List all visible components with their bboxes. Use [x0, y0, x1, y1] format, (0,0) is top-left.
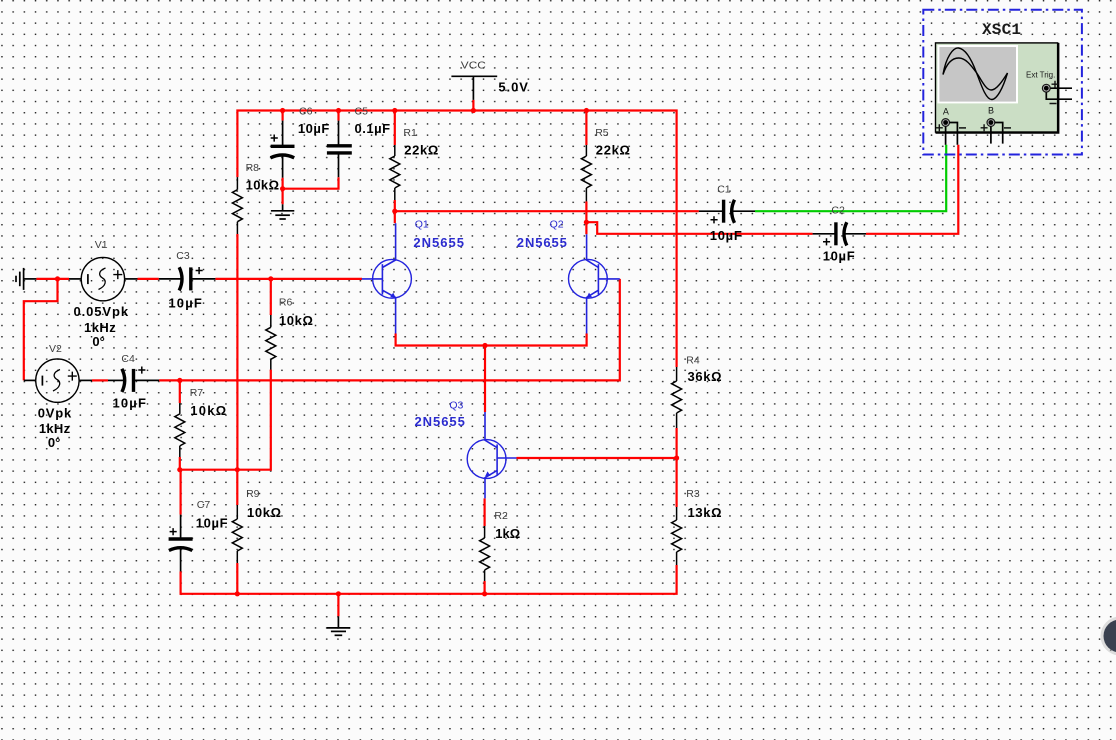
svg-text:1kHz: 1kHz	[39, 421, 71, 436]
wire R7 top	[179, 380, 181, 403]
svg-text:V2: V2	[49, 343, 62, 355]
node R1 / C1 junction	[392, 209, 397, 214]
svg-text:XSC1: XSC1	[982, 21, 1021, 39]
wire C2 to scope A minus	[866, 145, 958, 234]
svg-text:10µF: 10µF	[710, 228, 742, 243]
capacitor C1	[699, 183, 755, 243]
wire R9 top lead	[236, 470, 238, 505]
wire R2 bottom	[484, 581, 486, 594]
wire R9 bottom lead	[236, 563, 238, 594]
svg-text:36kΩ: 36kΩ	[688, 369, 722, 384]
wire R1 top lead	[394, 111, 396, 146]
svg-text:R5: R5	[595, 127, 609, 139]
resistor R9	[232, 488, 281, 563]
svg-text:10µF: 10µF	[298, 121, 329, 136]
wire ground to V1	[36, 278, 69, 280]
svg-text:VCC: VCC	[461, 60, 486, 72]
transistor Q3	[415, 399, 517, 498]
resistor R5	[581, 127, 629, 201]
wire bottom rail with end columns	[181, 565, 677, 594]
resistor R6	[266, 296, 313, 369]
svg-text:22kΩ: 22kΩ	[596, 143, 630, 158]
svg-text:Q3: Q3	[449, 399, 463, 411]
floating button bottom right	[1101, 617, 1116, 656]
node rail VCC junction	[471, 108, 476, 113]
wire C7 top	[180, 470, 182, 515]
ground bottom	[327, 616, 351, 635]
node C4 output / R7 top junction	[177, 378, 182, 383]
svg-text:R8: R8	[246, 162, 260, 174]
ground left (rotated)	[16, 268, 36, 290]
node C3 output / R6 top junction	[268, 276, 273, 281]
svg-text:R1: R1	[403, 127, 417, 139]
svg-text:22kΩ: 22kΩ	[404, 143, 438, 158]
node rail C6 junction	[280, 108, 285, 113]
node R8 / R9 junction	[235, 467, 240, 472]
svg-text:10kΩ: 10kΩ	[247, 505, 281, 520]
svg-text:C3: C3	[176, 250, 190, 262]
resistor R1	[390, 127, 439, 200]
wire C6 top lead	[282, 111, 284, 121]
ground under C6	[271, 204, 294, 219]
wire V1 to C3	[138, 278, 159, 280]
svg-text:R9: R9	[246, 488, 260, 500]
svg-text:0.05Vpk: 0.05Vpk	[74, 304, 129, 319]
wire VCC lead	[472, 100, 474, 111]
wire R8 bottom long vertical	[236, 234, 238, 470]
svg-text:C5: C5	[355, 105, 369, 117]
capacitor C7	[169, 499, 228, 571]
svg-text:0.1µF: 0.1µF	[355, 121, 391, 136]
svg-text:R6: R6	[279, 296, 293, 308]
node ground rail junction	[336, 591, 341, 596]
svg-text:C6: C6	[299, 105, 313, 117]
svg-text:R3: R3	[686, 488, 700, 500]
node R4 / R3 / Q3 base junction	[674, 455, 679, 460]
svg-text:R7: R7	[190, 387, 204, 399]
node R7 bottom / C7 junction	[177, 467, 182, 472]
wire R6 top lead	[270, 279, 272, 315]
wire top VCC rail with end columns	[237, 111, 676, 368]
capacitor C4	[108, 353, 159, 411]
svg-text:2N5655: 2N5655	[415, 414, 465, 429]
svg-text:R2: R2	[494, 510, 508, 522]
capacitor C3	[159, 250, 216, 310]
svg-text:5.0V: 5.0V	[498, 79, 528, 94]
resistor R2	[480, 510, 521, 581]
svg-text:C7: C7	[197, 499, 211, 511]
wire C3 to Q1 base	[215, 278, 362, 280]
node rail R1 junction	[392, 108, 397, 113]
resistor R4	[672, 354, 722, 428]
svg-text:B: B	[988, 106, 994, 116]
node R9 bottom rail junction	[235, 591, 240, 596]
svg-text:10µF: 10µF	[196, 516, 228, 531]
svg-text:C2: C2	[831, 205, 845, 217]
capacitor C2	[813, 205, 866, 264]
power VCC	[451, 60, 528, 100]
node rail R5 junction	[584, 108, 589, 113]
wire R6 bottom lead to node row	[180, 370, 271, 470]
wire C5 top lead	[337, 111, 339, 121]
svg-text:13kΩ: 13kΩ	[688, 505, 722, 520]
wire R1 bottom to Q1 collector	[394, 200, 396, 223]
capacitor C6	[271, 105, 330, 177]
svg-text:Q1: Q1	[415, 219, 429, 231]
wire R4 to R3 through node	[675, 428, 677, 507]
wire emitter node to Q3 collector	[484, 346, 486, 413]
wire C1 to scope A plus (green)	[755, 145, 946, 211]
svg-text:V1: V1	[95, 239, 108, 251]
resistor R8	[232, 162, 279, 234]
svg-text:10kΩ: 10kΩ	[246, 178, 279, 193]
transistor Q1	[362, 219, 464, 334]
node V1 ground junction	[55, 276, 60, 281]
wire Q3 base to divider node	[517, 457, 677, 459]
oscilloscope XSC1	[923, 10, 1082, 155]
svg-text:1kΩ: 1kΩ	[495, 526, 520, 541]
wire Q3 emitter to R2	[484, 498, 486, 526]
svg-text:0°: 0°	[48, 435, 60, 450]
wire Q1 emitter	[396, 334, 587, 346]
capacitor C5	[327, 105, 390, 177]
svg-text:0Vpk: 0Vpk	[38, 406, 72, 421]
wire bottom rail to ground	[337, 594, 339, 617]
svg-text:10kΩ: 10kΩ	[190, 403, 226, 418]
svg-text:10µF: 10µF	[823, 249, 855, 264]
svg-text:0°: 0°	[92, 334, 104, 349]
wire C5 bottom link to C6 node	[283, 177, 339, 189]
node Q2 collector / C2 junction	[584, 220, 589, 225]
wire R1 node to C1	[395, 210, 699, 212]
wire R5 top lead	[585, 111, 587, 146]
svg-text:10µF: 10µF	[168, 295, 201, 310]
wire R7 bottom	[179, 457, 181, 470]
wire Q2 collector tap to C2	[586, 222, 812, 234]
wire V2 to C4	[92, 379, 108, 381]
svg-text:1kHz: 1kHz	[84, 320, 116, 335]
wire R5 bottom to Q2 collector	[585, 201, 587, 234]
svg-text:2N5655: 2N5655	[413, 235, 464, 250]
transistor Q2	[517, 219, 620, 334]
svg-text:10µF: 10µF	[113, 396, 146, 411]
node rail C5 junction	[336, 108, 341, 113]
node emitter rail / Q3 junction	[482, 343, 487, 348]
svg-text:C1: C1	[717, 183, 731, 195]
svg-text:Q2: Q2	[550, 219, 564, 231]
svg-text:Ext Trig.: Ext Trig.	[1026, 70, 1055, 79]
svg-text:2N5655: 2N5655	[517, 235, 567, 250]
wire C6 bottom lead to ground	[282, 178, 284, 205]
svg-text:10kΩ: 10kΩ	[279, 313, 313, 328]
wire node to V2 loop	[24, 279, 58, 381]
node C6 bottom junction	[280, 186, 285, 191]
wire C4 to Q2 base	[159, 279, 620, 381]
source V2	[24, 343, 92, 450]
svg-text:C4: C4	[121, 353, 135, 365]
resistor R7	[175, 387, 226, 457]
source V1	[69, 239, 138, 349]
svg-text:A: A	[943, 107, 949, 117]
resistor R3	[672, 488, 722, 565]
svg-text:R4: R4	[686, 354, 700, 366]
node R2 bottom rail junction	[482, 591, 487, 596]
